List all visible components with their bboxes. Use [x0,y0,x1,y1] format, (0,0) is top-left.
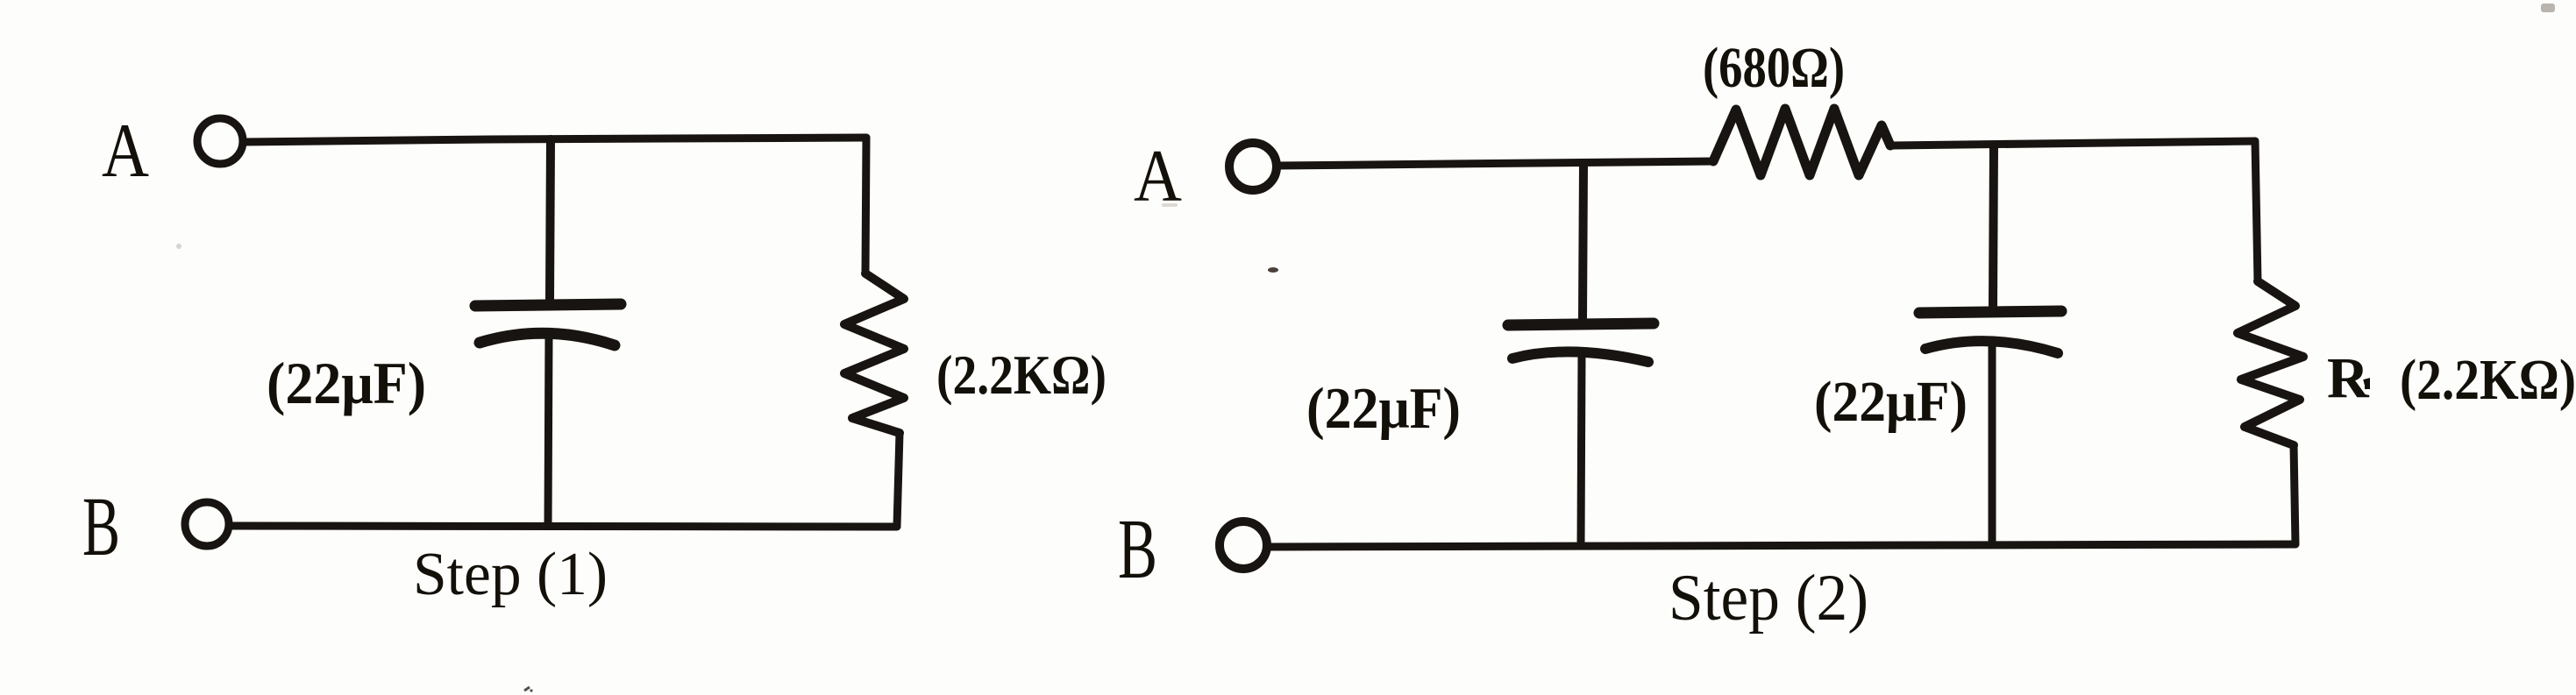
svg-text:(22μF): (22μF) [1306,376,1461,441]
svg-text:B: B [82,479,120,573]
svg-text:A: A [102,109,149,194]
svg-text:(2.2KΩ): (2.2KΩ) [2400,348,2576,412]
svg-text:Step (1): Step (1) [413,541,608,608]
svg-text:(680Ω): (680Ω) [1703,36,1845,100]
svg-text:(2.2KΩ): (2.2KΩ) [936,344,1107,406]
svg-text:R: R [2327,346,2370,410]
svg-text:B: B [1118,502,1157,597]
svg-text:(22μF): (22μF) [267,350,426,416]
svg-text:Step (2): Step (2) [1669,562,1868,635]
svg-text:(22μF): (22μF) [1814,370,1968,434]
